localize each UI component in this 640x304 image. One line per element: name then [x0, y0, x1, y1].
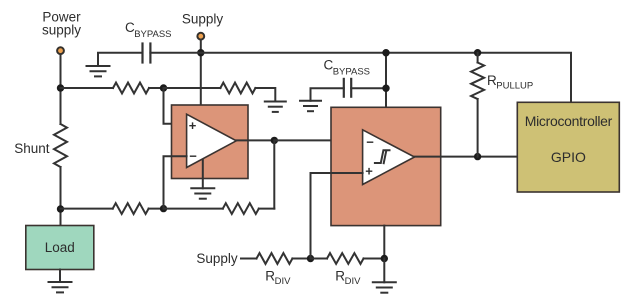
resistor R1 (op-amp input) — [113, 83, 149, 94]
ground (below U1) — [190, 188, 215, 198]
wire node L to ground — [383, 259, 385, 283]
label Supply (top) — [182, 12, 224, 27]
wire node K up to comparator + input — [311, 173, 363, 259]
wire node K to R_DIV 2 — [311, 258, 328, 260]
wire R1 to node D — [149, 87, 164, 89]
wire pullup bottom to output — [477, 99, 479, 157]
wire cap2 right plate to supply drop — [351, 87, 386, 89]
svg-text:GPIO: GPIO — [551, 149, 586, 165]
node A (power column / top resistor) — [57, 84, 64, 91]
load box — [26, 226, 94, 270]
capacitor C_BYPASS 2 — [344, 78, 351, 98]
node G (rail / comparator supply) — [382, 49, 389, 56]
label C_BYPASS 2 — [324, 58, 371, 78]
wire node D to resistor R2 — [164, 87, 221, 89]
wire R4 up to node E column — [259, 208, 275, 210]
label C_BYPASS 1 — [125, 20, 172, 40]
label U2 - input — [366, 135, 374, 150]
wire cap1 right plate to rail node — [150, 52, 200, 54]
svg-text:DIV: DIV — [275, 276, 292, 287]
comparator U2 triangle — [363, 130, 415, 185]
ground (below load) — [48, 282, 73, 292]
wire U1 ground pin — [202, 160, 204, 188]
capacitor C_BYPASS 1 — [143, 42, 151, 63]
svg-text:Microcontroller: Microcontroller — [525, 113, 613, 129]
svg-text:Supply: Supply — [196, 251, 238, 266]
label Load — [45, 240, 75, 255]
node D (op-amp + input tap) — [160, 84, 167, 91]
wire R2 to ground stub — [255, 88, 275, 102]
wire R3 to node F — [149, 208, 164, 210]
terminal Power supply — [57, 47, 64, 54]
label Power supply — [42, 9, 81, 37]
hysteresis symbol U2 — [375, 150, 390, 163]
wire load bottom to ground — [59, 270, 61, 283]
svg-text:−: − — [189, 149, 197, 164]
svg-text:BYPASS: BYPASS — [333, 66, 370, 77]
node I (U2 output / pullup) — [474, 153, 481, 160]
label U1 + input — [189, 118, 197, 133]
label U2 + input — [365, 163, 373, 178]
svg-text:−: − — [366, 135, 374, 150]
wire node A to resistor R1 — [61, 87, 114, 89]
svg-text:supply: supply — [42, 22, 81, 37]
label Supply (bottom) — [196, 251, 238, 266]
wire supply lead to R_DIV 1 — [241, 258, 257, 260]
node F (feedback divider tap) — [160, 205, 167, 212]
wire U2 output — [415, 156, 518, 158]
ground (below node L) — [372, 282, 397, 292]
resistor R_DIV 2 — [327, 253, 364, 264]
resistor Shunt — [54, 124, 67, 167]
microcontroller box — [517, 102, 619, 192]
label Shunt — [14, 141, 50, 156]
wire pullup top stub — [477, 53, 479, 63]
wire node F to resistor R4 — [164, 208, 223, 210]
wire node E down to feedback rail — [273, 140, 275, 208]
svg-text:+: + — [365, 163, 373, 178]
ground (left of C_BYPASS 2) — [299, 101, 322, 111]
node H (cap2 / supply drop) — [382, 85, 389, 92]
ground (left of C_BYPASS 1) — [86, 66, 111, 76]
label GPIO — [551, 149, 586, 165]
resistor R4 (feedback right) — [223, 203, 259, 214]
svg-text:PULLUP: PULLUP — [496, 81, 533, 92]
resistor R3 (feedback left) — [113, 203, 149, 214]
wire feedback rail left section — [61, 208, 113, 210]
wire shunt bottom to load — [60, 167, 62, 226]
label U1 - input — [189, 149, 197, 164]
wire supply terminal stem down into op-amp box — [200, 40, 202, 105]
node K (divider tap) — [307, 255, 314, 262]
op-amp U1 module box — [172, 105, 249, 179]
wire R_DIV2 to node L — [364, 258, 385, 260]
svg-text:BYPASS: BYPASS — [134, 29, 171, 40]
label R_DIV 1 — [265, 269, 291, 288]
svg-text:DIV: DIV — [345, 276, 362, 287]
wire cap2 left plate to ground — [311, 88, 344, 101]
resistor R_PULLUP — [471, 63, 484, 100]
wire rail left section to bypass cap — [98, 53, 143, 66]
op-amp U1 triangle — [187, 114, 237, 167]
wire comparator supply drop — [385, 53, 387, 108]
node J (rail / pullup top) — [474, 49, 481, 56]
wire comparator bottom pin — [383, 226, 385, 259]
node E (U1 output) — [271, 137, 278, 144]
svg-text:Supply: Supply — [182, 12, 224, 27]
resistor R_DIV 1 — [257, 253, 293, 264]
resistor R2 (to ground) — [220, 83, 255, 94]
svg-text:Load: Load — [45, 240, 75, 255]
wire R_DIV1 to node K — [292, 258, 310, 260]
node C (supply rail tap) — [197, 49, 204, 56]
node L (comparator bottom / ground) — [381, 255, 388, 262]
label Microcontroller — [525, 113, 613, 129]
wire node D down to op-amp + input — [164, 88, 187, 124]
comparator U2 module box — [331, 107, 441, 225]
wire top supply rail to microcontroller — [201, 53, 571, 103]
svg-text:Shunt: Shunt — [14, 141, 50, 156]
terminal Supply — [197, 33, 204, 40]
label R_PULLUP — [487, 73, 533, 92]
svg-text:+: + — [189, 118, 197, 133]
node B (shunt / load / feedback rail) — [57, 205, 64, 212]
wire power-supply column down to shunt — [60, 55, 62, 125]
wire node F up to op-amp - input — [164, 156, 187, 208]
wire node E to comparator - input — [274, 139, 362, 141]
label R_DIV 2 — [335, 269, 361, 288]
wire U1 output to node E — [236, 139, 274, 141]
ground (right of R2) — [264, 102, 287, 112]
